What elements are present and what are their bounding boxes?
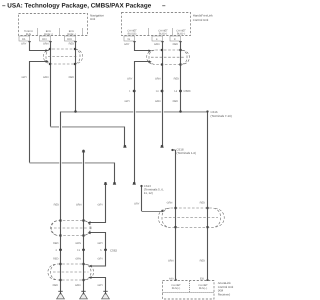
- C3 terminals: [162, 207, 209, 228]
- svg-text:RED: RED: [173, 43, 179, 46]
- svg-text:RED: RED: [53, 242, 59, 245]
- pin 8: [170, 36, 181, 41]
- svg-text:RED: RED: [173, 100, 179, 103]
- wire GRY C614 to C3: [141, 187, 143, 211]
- junction node at RED bus and HFL RED: [179, 110, 182, 113]
- svg-text:GRY: GRY: [22, 76, 28, 79]
- svg-text:GRN: GRN: [76, 203, 82, 206]
- svg-text:RED: RED: [69, 76, 75, 79]
- wire RED from pin 8: [180, 41, 182, 112]
- wire RED from pin B28: [75, 41, 77, 112]
- svg-text:(Terminals 1-6): (Terminals 1-6): [177, 151, 197, 155]
- svg-text:A30: A30: [169, 278, 174, 281]
- wire RED left drop to ground: [60, 112, 62, 293]
- pin B6: [19, 36, 30, 41]
- pin 19: [124, 36, 135, 41]
- wire GRY horizontal to C614: [30, 162, 115, 164]
- svg-text:RED: RED: [69, 43, 75, 46]
- connector C5 (in-line, bottom left lower): [48, 264, 94, 280]
- pin 4: [152, 36, 163, 41]
- svg-text:GRY: GRY: [125, 100, 131, 103]
- node C618: [171, 149, 173, 151]
- C2 terminals: [149, 49, 182, 66]
- svg-text:E31: E31: [200, 278, 205, 281]
- svg-text:GRY: GRY: [21, 43, 27, 46]
- wire GRN from pin B10: [50, 41, 52, 127]
- wire GRY C614 horizontal to C3: [142, 210, 162, 212]
- svg-text:–: –: [162, 2, 166, 9]
- connector C4 (in-line, bottom left upper): [50, 221, 91, 236]
- wire RED net C616 drop: [207, 112, 209, 282]
- svg-text:– USA: Technology Package, CMB: – USA: Technology Package, CMBS/PAX Pack…: [2, 2, 152, 9]
- svg-text:BUS(+): BUS(+): [172, 287, 181, 290]
- svg-text:BUS(–): BUS(–): [199, 287, 208, 290]
- svg-text:GRN: GRN: [75, 284, 81, 287]
- handsfreelink control unit U2 box: [122, 13, 191, 36]
- svg-text:GRN: GRN: [168, 260, 174, 263]
- svg-text:RED: RED: [174, 78, 180, 81]
- svg-text:RED: RED: [200, 202, 206, 205]
- wire GRN drop to C618 stub: [124, 127, 126, 148]
- connector C1 (in-line, below navigation unit): [43, 49, 82, 64]
- pin B28: [65, 36, 76, 41]
- wire stub start GRY shield drop: [104, 183, 107, 185]
- svg-text:B28: B28: [67, 38, 72, 41]
- svg-text:GRN: GRN: [155, 100, 161, 103]
- svg-text:GRN: GRN: [167, 202, 173, 205]
- svg-text:RED: RED: [54, 203, 60, 206]
- svg-text:GRY: GRY: [124, 43, 130, 46]
- svg-text:GRY: GRY: [98, 257, 104, 260]
- C4 terminals: [59, 219, 90, 236]
- svg-text:GRY: GRY: [98, 242, 104, 245]
- connector C582 terminal row: [59, 249, 107, 251]
- wire GRY vertical to C614: [114, 163, 116, 185]
- svg-text:GRN: GRN: [75, 242, 81, 245]
- acuralink control unit U3 box: [163, 281, 215, 300]
- navigation unit U1 box: [19, 14, 88, 36]
- svg-text:GRN: GRN: [75, 257, 81, 260]
- svg-text:BUS(–): BUS(–): [67, 33, 76, 36]
- svg-text:B10: B10: [42, 38, 47, 41]
- ground G3: [102, 291, 110, 299]
- svg-text:GRY: GRY: [98, 284, 104, 287]
- connector C2 (in-line, below HFL unit): [147, 50, 190, 65]
- pin terminal marks at unit boxes: [28, 41, 209, 281]
- pin B10: [40, 36, 51, 41]
- wire GRN net C618 drop: [175, 150, 177, 281]
- wire RED bus horizontal: [61, 111, 208, 113]
- C5 terminals: [59, 263, 91, 281]
- wire stub end C614 terminal left: [113, 183, 116, 185]
- svg-text:GRN: GRN: [43, 76, 49, 79]
- connector C584 terminal row: [133, 90, 182, 92]
- svg-text:BUS(+): BUS(+): [159, 32, 168, 35]
- svg-text:BUS(S): BUS(S): [128, 32, 137, 35]
- svg-text:Receiver): Receiver): [218, 293, 231, 297]
- wire GRN left drop to ground: [83, 152, 85, 292]
- wire stub end C618 terminal from navigation: [82, 145, 164, 184]
- svg-text:RED: RED: [53, 284, 59, 287]
- svg-text:GRY: GRY: [98, 203, 104, 206]
- svg-text:RED: RED: [53, 257, 59, 260]
- C1 terminals: [46, 48, 77, 65]
- svg-text:Unit: Unit: [90, 17, 95, 21]
- wire GRN bus horizontal: [51, 126, 125, 128]
- junction node at RED bus and nav RED: [74, 110, 77, 113]
- wire GRY from pin B6: [30, 41, 46, 163]
- svg-text:RED: RED: [200, 260, 206, 263]
- svg-text:Control Unit: Control Unit: [193, 18, 209, 22]
- wire stub start GRN left drop: [82, 151, 85, 153]
- svg-text:GRY: GRY: [127, 78, 133, 81]
- svg-text:GRY: GRY: [134, 203, 140, 206]
- wire GRN from pin 4: [162, 41, 164, 147]
- svg-text:BUS(–): BUS(–): [177, 32, 186, 35]
- connector C3 (in-line, bottom right): [158, 208, 224, 228]
- svg-text:C584: C584: [184, 89, 191, 93]
- svg-text:C582: C582: [110, 249, 117, 253]
- svg-text:BUS(+): BUS(+): [44, 33, 53, 36]
- svg-text:11, 12): 11, 12): [144, 191, 153, 195]
- ground G1: [57, 291, 65, 299]
- node C616: [206, 110, 208, 112]
- svg-text:GRN: GRN: [43, 43, 49, 46]
- wire stub end C618 terminal from HFL: [160, 146, 163, 148]
- wire stub end C614 terminal from HFL GRY: [133, 183, 136, 185]
- wires: main verticals and routing: [30, 41, 208, 292]
- node C614: [140, 185, 142, 187]
- svg-text:BUS: BUS: [26, 33, 32, 36]
- svg-text:HandsFreeLink: HandsFreeLink: [193, 14, 213, 18]
- svg-text:GRN: GRN: [155, 78, 161, 81]
- svg-text:GRN: GRN: [154, 43, 160, 46]
- ground G2: [80, 291, 88, 299]
- wire GRY from pin 19: [135, 41, 149, 184]
- wire GRY shield drop: [91, 184, 106, 292]
- svg-text:(Terminals 7-10): (Terminals 7-10): [211, 114, 232, 118]
